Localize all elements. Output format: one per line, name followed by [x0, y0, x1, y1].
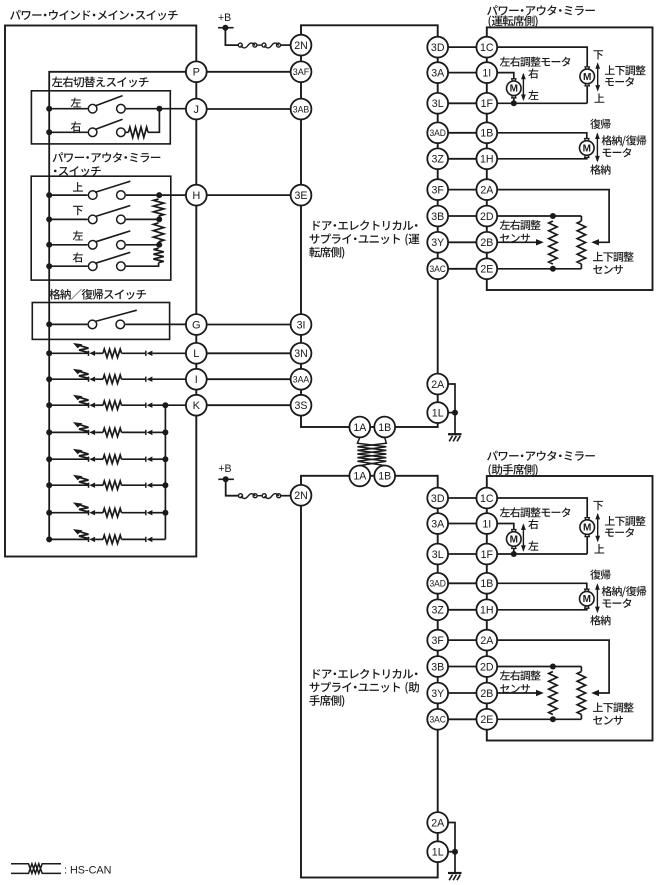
+B tap wire (lower) — [218, 478, 234, 480]
retract/return motor M (driver) — [580, 139, 595, 158]
svg-text:M: M — [583, 523, 591, 534]
left/right adjust motor M (passenger) — [507, 530, 522, 549]
svg-text:2N: 2N — [294, 490, 308, 502]
junction dot Left row — [156, 106, 162, 112]
switch contact 右 row — [88, 252, 130, 270]
connector pin G — [186, 314, 207, 335]
svg-text:3F: 3F — [432, 635, 445, 647]
up/down adjust sensor R (driver) — [580, 216, 582, 221]
junction dot bus mirror-sw row 上 — [46, 192, 52, 198]
junction dot 2D row (passenger) — [550, 664, 556, 670]
wire switch to junction (Left row) — [126, 108, 186, 110]
svg-text:+B: +B — [218, 12, 231, 24]
connector pin 2A (mirror2) — [476, 630, 497, 651]
svg-text:P: P — [193, 67, 200, 79]
connector pin 3L (unit1) — [427, 93, 448, 114]
svg-text:3Z: 3Z — [432, 154, 445, 166]
wire 3L-1F (unit1-mirror1) — [448, 102, 476, 104]
+B tap wire (upper) — [218, 27, 234, 29]
label 下 — [73, 206, 83, 215]
arrowhead into left/right sensor (passenger) — [536, 690, 544, 696]
wire 1I to left/right motor (driver) — [497, 73, 514, 79]
svg-text:2E: 2E — [480, 264, 493, 276]
wire 2D row (passenger) — [497, 666, 581, 668]
wire 1F row (driver) — [497, 102, 587, 104]
label kakunou (passenger) — [590, 615, 610, 625]
connector pin 3AD (unit2) — [427, 573, 448, 594]
wire I-3AA — [207, 378, 291, 380]
svg-text:3I: 3I — [297, 319, 306, 331]
svg-text:1H: 1H — [480, 605, 494, 617]
illumination lamp row K (diode, resistor) — [49, 395, 186, 410]
label retract/return motor (driver) — [602, 135, 647, 146]
wire breaker to 2N (upper) — [281, 44, 291, 46]
door electrical supply unit (passenger side) box — [301, 476, 438, 878]
label: door electrical supply unit (driver side) — [313, 220, 417, 230]
label left/right adjust motor (driver) — [500, 57, 571, 67]
connector pin 3AD (unit1) — [427, 122, 448, 143]
connector pin 1H (mirror2) — [476, 599, 497, 620]
wire switch to H — [126, 194, 186, 196]
wire breaker to 2N (lower) — [281, 495, 291, 497]
svg-text:2B: 2B — [480, 237, 493, 249]
wire 1C to up/down motor (passenger) — [497, 498, 587, 518]
illumination lamp row row7 (diode, resistor) — [49, 502, 165, 517]
svg-text:3AC: 3AC — [429, 714, 446, 725]
wire left/right motor to 1F junction (passenger) — [513, 548, 515, 554]
junction dot 1F row (passenger) — [511, 551, 517, 557]
connector pin P — [186, 61, 207, 82]
circuit breaker (lower) — [239, 494, 281, 499]
label fukki (driver) — [590, 119, 610, 129]
direction arrow up/down motor (passenger) — [595, 513, 600, 542]
switch contact Right row — [88, 119, 125, 136]
wire 3AD-1B (unit1-mirror1) — [448, 132, 476, 134]
ground (unit2) — [448, 873, 462, 880]
svg-text:M: M — [510, 534, 518, 545]
connector pin 3Y (unit1) — [427, 232, 448, 253]
left/right adjust motor M (driver) — [507, 79, 522, 98]
direction arrow retract motor (passenger) — [595, 583, 600, 613]
connector pin 1C (mirror2) — [476, 488, 497, 509]
junction dot 1F row (driver) — [511, 100, 517, 106]
junction dot feed row4 — [162, 429, 168, 435]
connector pin 3D (unit1) — [427, 37, 448, 58]
connector pin 1L (unit2 bottom) — [427, 841, 448, 862]
wire H-3E — [207, 194, 291, 196]
wire K-3S — [207, 404, 291, 406]
junction dot bus mirror-sw row 下 — [46, 216, 52, 222]
svg-text:3Y: 3Y — [431, 237, 444, 249]
connector pin 3AA (unit1) — [291, 369, 312, 390]
junction dot bus row7 row — [46, 510, 52, 516]
svg-text:3Y: 3Y — [431, 688, 444, 700]
direction arrow left/right motor (passenger) — [521, 523, 526, 551]
wire 3D-1C (unit1-mirror1) — [448, 46, 476, 48]
svg-text:: HS-CAN: : HS-CAN — [64, 864, 111, 876]
svg-text:3AD: 3AD — [429, 127, 446, 138]
connector pin 3I (unit1) — [291, 314, 312, 335]
wire 3Y-2B (unit1-mirror1) — [448, 241, 476, 243]
label migi (passenger) — [528, 519, 538, 529]
svg-text:1F: 1F — [481, 549, 494, 561]
svg-text:3A: 3A — [431, 518, 445, 530]
connector pin 1B (mirror2) — [476, 573, 497, 594]
wire 3F-2A (unit1-mirror1) — [448, 189, 476, 191]
junction dot ground node (unit2) — [452, 849, 458, 855]
junction dot bus K row — [46, 402, 52, 408]
svg-text:M: M — [583, 594, 591, 605]
connector pin 3F (unit1) — [427, 179, 448, 200]
twisted pair HS-CAN wires — [357, 437, 386, 465]
label up/down adjust motor (driver) — [605, 65, 646, 75]
label left/right adjust sensor (driver) — [500, 220, 541, 230]
label: left/right selector switch — [52, 77, 149, 88]
connector pin 1C (mirror1) — [476, 37, 497, 58]
connector pin 2D (mirror1) — [476, 206, 497, 227]
illumination lamp row L (diode, resistor) — [49, 343, 186, 358]
svg-text:1A: 1A — [353, 422, 367, 434]
wire 3A-1I (unit1-mirror1) — [448, 72, 476, 74]
wire P-3AF — [207, 71, 291, 73]
wire 3F-2A (unit2-mirror2) — [448, 639, 476, 641]
junction dot feed row5 — [162, 456, 168, 462]
connector pin 1B (unit2) — [374, 466, 395, 487]
junction dot bus row Right — [46, 129, 52, 135]
wire bus to switch (右 row) — [49, 265, 87, 267]
connector pin 1F (mirror2) — [476, 544, 497, 565]
illumination lamp row row5 (diode, resistor) — [49, 449, 165, 464]
wire left/right motor to 1F junction (driver) — [513, 98, 515, 104]
junction dot 2E row (passenger) — [550, 716, 556, 722]
power outer mirror switch box — [31, 176, 171, 280]
svg-text:1C: 1C — [480, 42, 494, 54]
label up/down adjust sensor (driver) — [593, 252, 634, 262]
wire 2A to ground stub (unit2) — [448, 823, 455, 852]
wire bus to switch (上 row) — [49, 194, 87, 196]
wire 3AC-2E (unit1-mirror1) — [448, 268, 476, 270]
connector pin 2A (mirror1) — [476, 179, 497, 200]
svg-text:2D: 2D — [480, 211, 494, 223]
wire up/down motor to 1F row (passenger) — [586, 537, 588, 555]
svg-text:1A: 1A — [353, 471, 367, 483]
switch contact 上 row — [88, 181, 130, 199]
svg-text:3A: 3A — [431, 67, 445, 79]
svg-text:1C: 1C — [480, 493, 494, 505]
junction dot bus row4 row — [46, 429, 52, 435]
wire bus to switch (下 row) — [49, 218, 87, 220]
wire to ground (unit2) — [454, 852, 456, 873]
svg-text:M: M — [583, 72, 591, 83]
connector pin 2E (mirror1) — [476, 258, 497, 279]
label: power outer mirror (driver side) — [487, 5, 595, 15]
wire 2E row (driver) — [497, 268, 581, 270]
svg-text:1B: 1B — [378, 471, 391, 483]
connector pin 2N (unit2) — [291, 485, 312, 506]
direction arrow up/down motor (driver) — [595, 62, 600, 91]
connector pin J — [186, 99, 207, 120]
svg-text:3D: 3D — [431, 493, 445, 505]
connector pin 1A (unit1) — [349, 417, 370, 438]
connector pin L — [186, 343, 207, 364]
svg-text:M: M — [583, 143, 591, 154]
wire 3Y-2B (unit2-mirror2) — [448, 692, 476, 694]
label migi (driver) — [528, 68, 538, 78]
svg-text:3AB: 3AB — [293, 103, 310, 114]
junction dot bus row8 row — [46, 536, 52, 542]
wire 3AD-1B (unit2-mirror2) — [448, 582, 476, 584]
connector pin 3F (unit2) — [427, 630, 448, 651]
connector pin 3B (unit1) — [427, 206, 448, 227]
svg-text:3E: 3E — [295, 190, 308, 202]
svg-text:2N: 2N — [294, 40, 308, 52]
wire switch to chain (右 row) — [126, 265, 159, 267]
svg-text:2E: 2E — [480, 714, 493, 726]
connector pin 3A (unit2) — [427, 513, 448, 534]
wire bus to switch (Left row) — [49, 108, 87, 110]
up/down adjust motor M (passenger) — [580, 518, 595, 537]
svg-text:1L: 1L — [432, 407, 444, 419]
resistor R selector — [129, 127, 149, 137]
retract/return motor M (passenger) — [580, 589, 595, 608]
junction dot ground node (unit1) — [452, 410, 458, 416]
svg-text:3L: 3L — [432, 549, 444, 561]
connector pin 1B (unit1) — [374, 417, 395, 438]
illumination lamp row row6 (diode, resistor) — [49, 475, 165, 490]
connector pin 3AB (unit1) — [291, 99, 312, 120]
label: power outer mirror (passenger side) — [487, 451, 595, 461]
connector pin 1B (mirror1) — [476, 122, 497, 143]
svg-text:3AF: 3AF — [293, 66, 310, 77]
connector pin 1A (unit2) — [349, 466, 370, 487]
switch contact 左 row — [88, 231, 130, 249]
connector pin K — [186, 395, 207, 416]
svg-text:3AC: 3AC — [429, 263, 446, 274]
connector pin 2B (mirror1) — [476, 232, 497, 253]
connector pin 3AC (unit1) — [427, 258, 448, 279]
junction dot bus I row — [46, 376, 52, 382]
connector pin 3S (unit1) — [291, 395, 312, 416]
junction dot feed row7 — [162, 510, 168, 516]
wire 1L to ground node (unit2) — [448, 851, 455, 853]
junction dot bus retract row — [46, 321, 52, 327]
resistor chain R2 (mirror switch) — [153, 223, 163, 242]
door electrical supply unit (driver side) box — [301, 25, 438, 427]
wire bus to switch (Right row) — [49, 131, 87, 133]
svg-text:K: K — [193, 400, 201, 412]
svg-text:3N: 3N — [294, 348, 308, 360]
wire switch to resistor (Right row) — [125, 131, 128, 133]
wire 2A sensor feed (driver) — [497, 190, 609, 243]
svg-text:2A: 2A — [431, 817, 445, 829]
switch contact Left row — [88, 96, 125, 113]
label left/right adjust motor (passenger) — [500, 507, 571, 517]
junction dot feed row6 — [162, 482, 168, 488]
wire 3B-2D (unit2-mirror2) — [448, 666, 476, 668]
svg-text:2A: 2A — [431, 379, 445, 391]
power window main switch box — [5, 26, 196, 557]
label up/down adjust sensor (passenger) — [593, 702, 634, 712]
resistor chain R1 (mirror switch) — [153, 199, 163, 216]
direction arrow left/right motor (driver) — [521, 73, 526, 101]
ground (unit1) — [448, 434, 462, 441]
wire to ground (unit1) — [454, 413, 456, 435]
connector pin 3N (unit1) — [291, 343, 312, 364]
power outer mirror (passenger side) box — [487, 476, 653, 741]
junction dot bus row6 row — [46, 482, 52, 488]
arrowhead into left/right sensor (driver) — [536, 239, 544, 245]
connector pin 3A (unit1) — [427, 62, 448, 83]
label left/right adjust sensor (passenger) — [500, 670, 541, 680]
wire 2A sensor feed (passenger) — [497, 640, 609, 693]
connector pin 3Z (unit2) — [427, 599, 448, 620]
connector pin I — [186, 369, 207, 390]
wire 3AC-2E (unit2-mirror2) — [448, 718, 476, 720]
switch contact 下 row — [88, 206, 130, 224]
svg-text:1I: 1I — [482, 67, 491, 79]
label shita (driver) — [593, 50, 603, 59]
wire 3B-2D (unit1-mirror1) — [448, 215, 476, 217]
connector pin 2B (mirror2) — [476, 683, 497, 704]
wire 3L-1F (unit2-mirror2) — [448, 553, 476, 555]
wire 1B to retract motor (passenger) — [497, 583, 587, 589]
connector pin H — [186, 185, 207, 206]
wire 3Z-1H (unit2-mirror2) — [448, 609, 476, 611]
label up/down adjust motor (passenger) — [605, 516, 646, 526]
junction dot bus row Left — [46, 106, 52, 112]
wire 1I to left/right motor (passenger) — [497, 524, 514, 530]
svg-text:1B: 1B — [480, 578, 493, 590]
illumination lamp row I (diode, resistor) — [49, 369, 186, 384]
connector pin 3E (unit1) — [291, 185, 312, 206]
wire bus to switch (左 row) — [49, 244, 87, 246]
wire up/down motor to 1F row (driver) — [586, 86, 588, 104]
left/right adjust sensor R (driver) — [549, 221, 557, 264]
label: door electrical supply unit (passenger side) — [313, 669, 417, 679]
circuit breaker (upper) — [238, 43, 280, 48]
svg-text:3F: 3F — [432, 184, 445, 196]
junction dot bus row5 row — [46, 456, 52, 462]
svg-text:2D: 2D — [480, 661, 494, 673]
label kakunou (driver) — [590, 164, 610, 174]
connector pin 3L (unit2) — [427, 544, 448, 565]
wire 1B to retract motor (driver) — [497, 133, 587, 139]
label fukki (passenger) — [590, 569, 610, 579]
wire 3A-1I (unit2-mirror2) — [448, 523, 476, 525]
illumination lamp row row4 (diode, resistor) — [49, 422, 165, 437]
svg-text:3Z: 3Z — [432, 605, 445, 617]
wire retract motor to 1H (passenger) — [497, 608, 587, 610]
svg-text:1B: 1B — [480, 128, 493, 140]
left/right selector switch box — [31, 91, 170, 144]
connector pin 1F (mirror1) — [476, 93, 497, 114]
label Right (migi) — [71, 121, 81, 131]
wire 2B row wiper (driver) — [497, 241, 536, 243]
junction dot chain mid1 — [156, 216, 162, 222]
svg-text:2A: 2A — [480, 635, 494, 647]
switch contact retract/return — [88, 310, 137, 329]
connector pin 3AC (unit2) — [427, 709, 448, 730]
wire 2D row (driver) — [497, 215, 581, 217]
arrowhead into up/down sensor (passenger) — [591, 690, 599, 696]
label 右 — [73, 252, 83, 262]
wire resistor up to Left row — [148, 109, 159, 133]
svg-text:+B: +B — [218, 463, 231, 475]
vertical feed wire network — [164, 405, 166, 539]
junction dot 2E row (driver) — [550, 266, 556, 272]
wire 2A to ground stub (unit1) — [448, 384, 455, 413]
connector pin 2A (unit1 bottom) — [427, 374, 448, 395]
HS-CAN legend twisted pair symbol — [11, 864, 61, 874]
svg-text:3L: 3L — [432, 98, 444, 110]
wire retract motor to 1H (driver) — [497, 157, 587, 158]
junction dot chain mid2 — [156, 242, 162, 248]
svg-text:2A: 2A — [480, 184, 494, 196]
junction dot bus mirror-sw row 右 — [46, 263, 52, 269]
junction dot bus L row — [46, 350, 52, 356]
wire J-3AB — [207, 108, 291, 110]
wire 3D-1C (unit2-mirror2) — [448, 497, 476, 499]
label ue (driver) — [594, 93, 604, 102]
arrowhead into up/down sensor (driver) — [591, 239, 599, 245]
label shita (passenger) — [593, 501, 603, 510]
wire 1C to up/down motor (driver) — [497, 47, 587, 67]
label hidari (driver) — [528, 90, 538, 100]
connector pin 1I (mirror2) — [476, 513, 497, 534]
svg-text:G: G — [192, 319, 201, 331]
label ue (passenger) — [594, 544, 604, 553]
wire +B to breaker (lower) — [226, 479, 239, 495]
svg-text:1I: 1I — [482, 518, 491, 530]
retract/return switch box — [32, 303, 169, 340]
connector pin 3AF (unit1) — [291, 61, 312, 82]
svg-text:3B: 3B — [431, 661, 444, 673]
label retract/return motor (passenger) — [602, 586, 647, 597]
svg-text:1L: 1L — [432, 847, 444, 859]
wire switch to G — [125, 323, 186, 325]
svg-text:H: H — [192, 190, 200, 202]
up/down adjust motor M (driver) — [580, 67, 595, 86]
wire switch to chain (下 row) — [126, 218, 159, 220]
junction dot bus mirror-sw row 左 — [46, 242, 52, 248]
label hidari (passenger) — [528, 541, 538, 551]
junction dot 2D row (driver) — [550, 213, 556, 219]
connector pin 3Y (unit2) — [427, 683, 448, 704]
resistor chain R3 (mirror switch) — [153, 248, 163, 262]
svg-text:3S: 3S — [295, 400, 308, 412]
wire 2B row wiper (passenger) — [497, 692, 536, 694]
svg-text:1B: 1B — [378, 422, 391, 434]
power outer mirror (driver side) box — [487, 27, 653, 290]
connector pin 1H (mirror1) — [476, 148, 497, 169]
svg-text:3AA: 3AA — [293, 374, 310, 385]
direction arrow retract motor (driver) — [595, 133, 600, 163]
svg-text:L: L — [193, 348, 199, 360]
junction dot feed K — [162, 402, 168, 408]
svg-text:3B: 3B — [431, 211, 444, 223]
illumination lamp row row8 (diode, resistor) — [49, 529, 165, 544]
wire 1F row (passenger) — [497, 553, 587, 555]
wire +B to breaker (upper) — [225, 28, 238, 45]
wire bus to switch (retract row) — [49, 323, 87, 325]
label: retract/return switch — [49, 289, 146, 300]
connector pin 1I (mirror1) — [476, 62, 497, 83]
svg-text:3AD: 3AD — [429, 578, 446, 589]
label 上 — [73, 182, 83, 191]
svg-text:1H: 1H — [480, 154, 494, 166]
label: power window main switch — [10, 10, 178, 20]
connector pin 2N (unit1) — [291, 35, 312, 56]
